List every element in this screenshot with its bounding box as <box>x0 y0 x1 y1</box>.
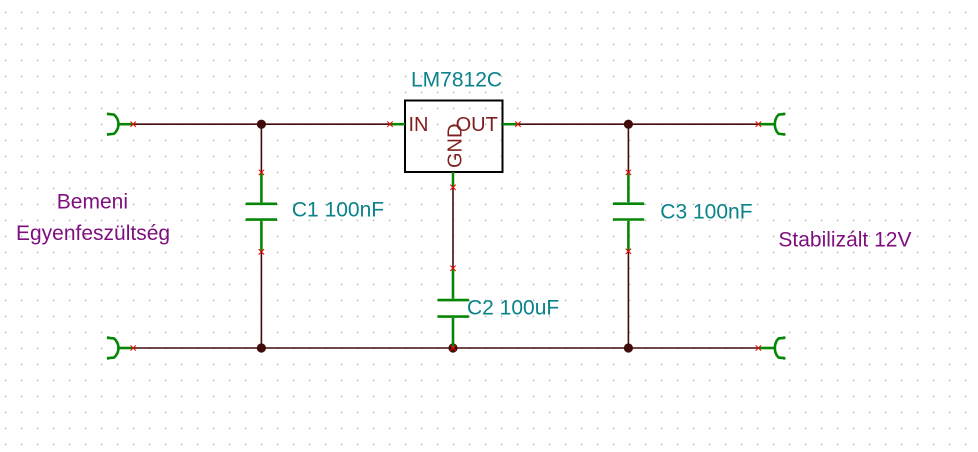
wire top input segment (left connector to IN pin) <box>133 123 391 125</box>
x at OUT pin <box>515 122 520 127</box>
pin OUT of U1 <box>503 123 518 126</box>
x at C1 bottom pin <box>259 249 264 254</box>
svg-text:IN: IN <box>409 114 429 136</box>
label C1 100nF <box>292 199 384 222</box>
junction at C3 top <box>624 120 633 129</box>
x at input top connector <box>131 122 136 127</box>
x at output bottom connector <box>756 345 761 350</box>
capacitor C2 <box>438 268 469 348</box>
connector output top (open hemisphere) <box>759 113 784 136</box>
x at C2 bottom pin <box>450 345 455 350</box>
svg-text:Bemeni: Bemeni <box>57 190 128 213</box>
pin name GND (rotated) <box>444 124 466 168</box>
wire GND pin to C2 <box>452 187 454 268</box>
label C3 100nF <box>660 200 752 223</box>
pin name IN <box>409 114 429 136</box>
wire C3 top vertical <box>627 124 629 172</box>
capacitor C1 <box>246 172 277 251</box>
connector input bottom (open hemisphere) <box>108 336 132 359</box>
capacitor C3 <box>613 172 644 251</box>
svg-text:C2 100uF: C2 100uF <box>467 297 559 320</box>
x at C3 top pin <box>626 170 631 175</box>
note label Stabilizált 12V <box>778 228 911 251</box>
junction at C2 bottom <box>448 343 457 352</box>
label C2 100uF <box>467 297 559 320</box>
x at input bottom connector <box>131 345 136 350</box>
pin IN of U1 <box>390 123 405 126</box>
wire C3 bottom vertical <box>627 251 629 348</box>
pin-end marks (red x) <box>131 122 762 351</box>
x at C1 top pin <box>259 170 264 175</box>
svg-text:LM7812C: LM7812C <box>411 69 502 92</box>
value label LM7812C <box>411 69 502 92</box>
wire C1 bottom vertical <box>260 252 262 348</box>
x at C2 top pin <box>450 266 455 271</box>
regulator U1 body (LM7812C box) <box>405 101 503 173</box>
wire bottom ground rail <box>133 347 759 349</box>
svg-text:C3 100nF: C3 100nF <box>660 200 752 223</box>
svg-text:Egyenfeszültség: Egyenfeszültség <box>16 222 170 245</box>
note label Egyenfeszültség <box>16 222 170 245</box>
wire top output segment (OUT pin to right connector) <box>518 123 759 125</box>
x at C3 bottom pin <box>626 249 631 254</box>
connector input top (open hemisphere) <box>108 113 132 136</box>
x at output top connector <box>756 122 761 127</box>
wire C1 top vertical <box>260 124 262 172</box>
x at GND pin <box>450 185 455 190</box>
pin name OUT <box>456 114 498 136</box>
junction at C1 bottom <box>257 343 266 352</box>
junction at C1 top <box>257 120 266 129</box>
note label Bemeni <box>57 190 128 213</box>
svg-text:GND: GND <box>444 124 466 168</box>
pin GND of U1 <box>452 172 455 187</box>
connector output bottom (open hemisphere) <box>759 336 784 359</box>
svg-text:C1 100nF: C1 100nF <box>292 199 384 222</box>
junction at C3 bottom <box>624 343 633 352</box>
svg-text:Stabilizált 12V: Stabilizált 12V <box>778 228 911 251</box>
x at IN pin <box>387 122 392 127</box>
